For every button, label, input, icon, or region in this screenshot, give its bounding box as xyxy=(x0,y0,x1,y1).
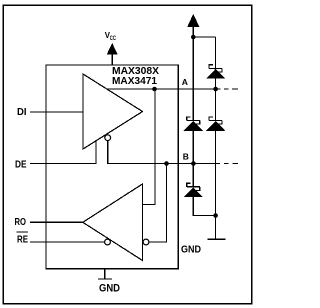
wire line A down to zener D4 xyxy=(215,89,217,121)
node junction VCC rail xyxy=(191,35,196,40)
wire DE input xyxy=(30,140,96,164)
wire driver Y output to line A xyxy=(106,88,221,90)
power arrow VCC right rail xyxy=(187,14,199,27)
wire jog VCC rail to zener D2 xyxy=(193,36,215,38)
wire line B dashed continuation xyxy=(224,163,229,165)
wire D2 anode to line A xyxy=(215,79,217,89)
wire receiver A input xyxy=(143,89,156,205)
wire VCC stem xyxy=(111,54,113,65)
wire RE input xyxy=(30,241,105,243)
svg-text:DE: DE xyxy=(15,160,27,171)
svg-text:RO: RO xyxy=(15,217,27,228)
svg-text:GND: GND xyxy=(181,244,201,256)
svg-text:CC: CC xyxy=(110,35,117,42)
wire arrow stem xyxy=(192,27,194,38)
node junction ground rail xyxy=(213,213,218,218)
zener diode D2 VCC-to-A xyxy=(206,65,225,79)
node junction B-zener xyxy=(191,161,196,166)
wire line B down to zener D3 xyxy=(192,164,194,188)
svg-text:RE: RE xyxy=(17,234,28,245)
wire ground rail stem xyxy=(215,216,217,240)
ground right bar xyxy=(208,238,226,240)
driver D1 triangle xyxy=(83,74,143,149)
svg-text:DI: DI xyxy=(17,107,27,118)
wire line A dashed continuation xyxy=(224,88,229,90)
svg-text:B: B xyxy=(183,152,189,162)
wire DI input xyxy=(30,111,83,113)
wire rail L1 down to zener D1 xyxy=(192,37,194,121)
svg-text:GND: GND xyxy=(99,283,120,295)
node junction A-zener xyxy=(213,87,218,92)
wire RO output xyxy=(30,221,83,223)
wire D3 anode jog to ground rail xyxy=(193,197,215,215)
svg-text:MAX3471: MAX3471 xyxy=(112,75,157,87)
zener diode D4 A-to-GND xyxy=(206,117,225,131)
svg-text:A: A xyxy=(182,77,188,87)
ground GND bottom stem xyxy=(104,269,106,279)
ground GND bottom bar xyxy=(98,278,112,280)
receiver R1 triangle xyxy=(83,184,143,261)
op-amp U1 IC box MAX308X/MAX3471 xyxy=(46,65,178,269)
wire rail L2 down to zener D2 xyxy=(215,37,217,69)
zener diode D1 VCC-to-B xyxy=(184,117,203,131)
power VCC arrow xyxy=(107,43,118,55)
node junction A-receiver tap xyxy=(152,87,157,92)
wire receiver B input xyxy=(149,164,167,243)
receiver enable bubble RE xyxy=(105,239,111,245)
zener diode D3 B-to-GND xyxy=(184,183,203,197)
wire D1 anode to line B xyxy=(192,131,194,164)
power VCC label xyxy=(105,31,117,42)
wire driver Z output to line B xyxy=(108,141,220,164)
receiver inverting input bubble xyxy=(143,239,149,245)
driver inverting output bubble xyxy=(105,135,111,141)
wire D4 anode to ground rail crossing B xyxy=(215,131,217,216)
node junction B-receiver tap xyxy=(164,161,169,166)
